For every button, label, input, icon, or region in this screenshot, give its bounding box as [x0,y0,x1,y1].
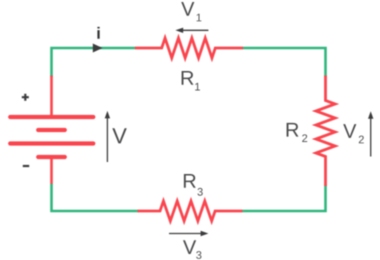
resistor R3 (bottom) [138,201,243,221]
label R2 [287,123,299,137]
voltage arrow V (up) [105,111,110,162]
wire red lead battery bottom [50,157,53,184]
label R1 [182,71,194,85]
label V3 subscript 3 [196,251,201,259]
wire top-right green segment [243,48,326,77]
voltage arrow V3 (right) [169,231,208,236]
wire red lead battery top [50,76,53,118]
label V2 [343,124,356,138]
label R3 subscript 3 [198,188,203,196]
label R1 subscript 1 [195,83,200,91]
battery plate long top [10,115,93,119]
label V1 subscript 1 [197,14,202,22]
battery minus sign [23,165,29,167]
battery plate short bottom [38,155,65,159]
voltage arrow V2 (up) [368,111,373,156]
wire top-left green segment [52,48,136,77]
wire bottom-left green segment [52,184,139,212]
label R2 subscript 2 [302,134,307,142]
label i [97,27,99,39]
current direction arrowhead i [93,44,103,53]
resistor R2 (right) [316,76,335,187]
label V3 [183,240,196,254]
wire bottom-right green segment [243,185,326,212]
battery plus sign [22,94,29,101]
label V battery [112,128,126,143]
label R3 [184,174,196,188]
resistor R1 (top) [135,38,243,58]
label V2 subscript 2 [359,136,364,144]
battery plate short upper [38,128,65,132]
battery plate long lower [10,141,93,145]
voltage arrow V1 (left) [175,28,208,33]
label V1 [181,2,194,16]
